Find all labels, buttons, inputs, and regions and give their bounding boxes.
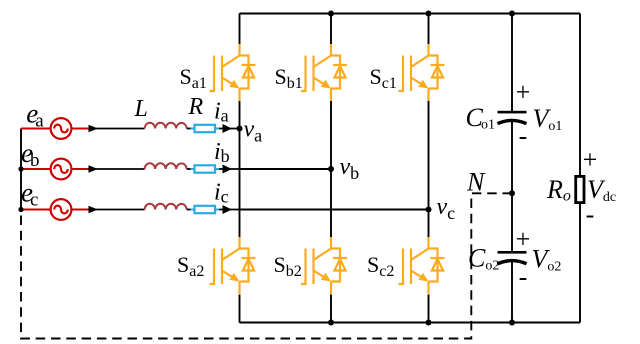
svg-text:R: R (188, 94, 204, 120)
svg-text:Sc2: Sc2 (367, 252, 394, 280)
svg-text:vc: vc (437, 194, 456, 223)
svg-text:Vo1: Vo1 (533, 104, 563, 134)
svg-text:ib: ib (214, 139, 230, 166)
svg-text:+: + (583, 145, 598, 174)
svg-text:Ro: Ro (546, 175, 571, 205)
svg-text:eb: eb (21, 138, 39, 171)
svg-text:+: + (516, 78, 531, 107)
svg-text:Co1: Co1 (466, 103, 496, 133)
svg-text:N: N (466, 168, 486, 197)
svg-text:Sa1: Sa1 (180, 64, 207, 92)
svg-text:-: - (586, 200, 595, 229)
svg-text:Vo2: Vo2 (532, 245, 562, 275)
svg-text:Sb2: Sb2 (274, 252, 302, 280)
svg-text:Sb1: Sb1 (275, 64, 303, 92)
svg-text:vb: vb (340, 154, 360, 183)
svg-text:ec: ec (21, 178, 38, 211)
svg-text:ic: ic (214, 180, 229, 207)
svg-text:L: L (134, 96, 148, 122)
svg-text:ia: ia (214, 99, 229, 126)
svg-text:-: - (519, 263, 528, 292)
svg-text:Sc1: Sc1 (370, 64, 397, 92)
svg-text:Co2: Co2 (468, 244, 499, 274)
svg-text:va: va (244, 117, 263, 146)
svg-text:-: - (519, 121, 528, 150)
svg-text:+: + (516, 224, 531, 253)
svg-text:Sa2: Sa2 (177, 252, 204, 280)
svg-text:ea: ea (26, 99, 44, 132)
